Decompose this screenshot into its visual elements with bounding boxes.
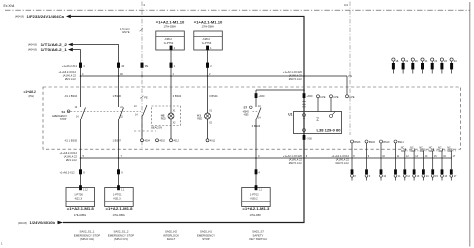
PE stub from equipotential line	[346, 76, 348, 95]
svg-text:PE: PE	[144, 95, 148, 99]
junction dots	[80, 75, 82, 77]
svg-text:0-PE: 0-PE	[320, 97, 326, 99]
svg-text:=1+A2.1-M1.10: =1+A2.1-M1.10	[156, 20, 185, 24]
svg-text:-X00: -X00	[306, 136, 312, 140]
fuse marks on U1 feed	[302, 101, 306, 103]
pin X12:40	[117, 63, 120, 68]
wire S1:22 down	[118, 119, 120, 188]
svg-text:1.12: 1.12	[83, 188, 88, 191]
wire T1 to contact S1:21 (x118.5)	[73, 45, 119, 108]
socket BS04 column 9	[365, 140, 368, 143]
svg-text:(A1/KL4.22: (A1/KL4.22	[63, 74, 77, 78]
wire H1:X2 down	[207, 119, 209, 139]
pin X12:9	[117, 169, 120, 174]
svg-text:PE: PE	[145, 64, 149, 68]
page right border	[469, 2, 471, 247]
svg-text:0 BS02: 0 BS02	[173, 94, 182, 98]
svg-text:1-PT00: 1-PT00	[74, 193, 83, 197]
pin -X00 below U1	[303, 135, 306, 140]
pin 1	[206, 46, 209, 51]
svg-text:NC: NC	[410, 147, 414, 150]
wire T0 to contact S1:13 (x80.5)	[73, 50, 81, 107]
svg-text:BS06: BS06	[354, 141, 361, 144]
wire S2:14 down	[255, 119, 257, 188]
socket BS02	[170, 139, 173, 142]
svg-text:Ø22.5 mm²: Ø22.5 mm²	[289, 77, 302, 81]
svg-text:BS11: BS11	[398, 141, 404, 144]
wire lamp H1 feed	[207, 50, 209, 113]
svg-text:=1+A2.1-M1.8: =1+A2.1-M1.8	[106, 207, 133, 211]
svg-text:(404.8): (404.8)	[18, 221, 27, 225]
svg-text:RED: RED	[197, 119, 202, 121]
svg-text:+1+A6.2-CC12: +1+A6.2-CC12	[59, 151, 77, 155]
plug box =1+A2.1-M1.3	[242, 188, 271, 207]
svg-text:S7: S7	[244, 106, 248, 110]
svg-text:RED: RED	[161, 119, 166, 121]
svg-text:17IH-DBH: 17IH-DBH	[202, 24, 214, 28]
svg-text:1-PT01: 1-PT01	[113, 193, 122, 197]
arrow 24V0 target	[58, 221, 64, 225]
arrow T0	[68, 48, 73, 52]
PE pins above U1	[317, 95, 320, 98]
svg-text:(A1/KL4.22: (A1/KL4.22	[64, 154, 78, 158]
pin 1	[170, 46, 173, 51]
wire PE equipotential line	[81, 75, 348, 77]
spare terminal 18	[392, 58, 395, 61]
svg-text:STOP: STOP	[202, 237, 210, 241]
svg-text:1,5 mm²: 1,5 mm²	[120, 27, 130, 31]
svg-text:U1: U1	[288, 112, 292, 116]
mechanical link dashed S1	[71, 111, 142, 113]
svg-text:(PH): (PH)	[29, 94, 35, 98]
svg-text:17IH-DBH: 17IH-DBH	[164, 24, 176, 28]
svg-text:=1+A2.1-M1.10: =1+A2.1-M1.10	[194, 20, 223, 24]
pin +X00 (S2 branch)	[255, 93, 258, 98]
pin X12:4	[255, 169, 258, 174]
socket BS11 column 11	[394, 140, 397, 143]
spare terminal 24	[450, 58, 453, 61]
svg-text:1/F233/24V1/404Ca: 1/F233/24V1/404Ca	[27, 15, 65, 19]
svg-text:1/T0/A6.2_1: 1/T0/A6.2_1	[41, 48, 68, 52]
svg-text:-N21.3: -N21.3	[74, 196, 82, 200]
plug box =1+A2.1-M1.8 (left)	[66, 188, 95, 207]
svg-text:H2: H2	[161, 113, 165, 117]
spare terminal 23	[440, 58, 443, 61]
svg-text:(A1/KL4.22: (A1/KL4.22	[336, 157, 350, 161]
cable marker dash-dot vertical C4 (x350)	[349, 2, 351, 136]
wire 24V1 bus top, right drop and 24V0 bottom bus	[63, 16, 304, 222]
svg-text:1 BS07: 1 BS07	[113, 138, 122, 142]
svg-text:4002: 4002	[159, 140, 165, 143]
svg-text:+X00: +X00	[306, 94, 313, 98]
svg-text:0-PE: 0-PE	[333, 97, 339, 99]
svg-text:1/T1/A6.2_2: 1/T1/A6.2_2	[41, 43, 68, 47]
svg-text:(SPLO CV): (SPLO CV)	[114, 237, 128, 241]
svg-text:NC: NC	[438, 147, 442, 150]
svg-text:-X1 1 BS04: -X1 1 BS04	[64, 94, 78, 98]
socket BS01	[206, 139, 209, 142]
svg-text:STOP: STOP	[60, 119, 67, 121]
plug box =1+A2.1-M1.8 (mid)	[105, 188, 134, 207]
socket 4004	[141, 139, 144, 142]
wire label PE tick	[140, 96, 144, 99]
svg-text:Ex.Xh4: Ex.Xh4	[4, 4, 15, 8]
svg-text:+1+A2.1-CC120: +1+A2.1-CC120	[283, 154, 303, 158]
svg-text:-N30.2: -N30.2	[250, 196, 258, 200]
spare terminal 19	[402, 58, 405, 61]
enclosure dashed box =1+A6.2	[43, 87, 461, 149]
socket 4002	[156, 139, 159, 142]
pin X12:PE	[141, 63, 144, 68]
svg-text:(404.8): (404.8)	[28, 43, 37, 47]
svg-text:GN2.5 mm²: GN2.5 mm²	[335, 161, 349, 165]
svg-text:-KB45: -KB45	[242, 111, 249, 113]
wire PE contact down	[141, 116, 143, 139]
wire H2:X2 down	[170, 119, 172, 139]
spare terminal 22	[431, 58, 434, 61]
svg-text:+1+A6.2-X12: +1+A6.2-X12	[60, 171, 76, 175]
svg-text:4004: 4004	[144, 140, 150, 143]
svg-text:-N31.3: -N31.3	[113, 196, 121, 200]
wire return line 0V	[81, 157, 453, 159]
svg-text:(A1/KL4.22: (A1/KL4.22	[289, 74, 303, 78]
svg-text:(SPLO CH): (SPLO CH)	[80, 237, 94, 241]
svg-text:(A1/KL4.22: (A1/KL4.22	[289, 157, 303, 161]
svg-text:-X1 1 BS05: -X1 1 BS05	[64, 138, 78, 142]
cable marker dash-dot vertical W4 (x142)	[141, 2, 143, 149]
svg-text:+1+A6.2-X12: +1+A6.2-X12	[62, 64, 78, 68]
svg-text:+1+A2.1-CC120: +1+A2.1-CC120	[283, 70, 303, 74]
arrow 24V1 source	[66, 15, 71, 19]
svg-text:+1+A2.1-CC12: +1+A2.1-CC12	[331, 154, 349, 158]
socket BS06 column 8	[351, 140, 354, 143]
spare terminal 21	[421, 58, 424, 61]
svg-text:-X28.2: -X28.2	[202, 37, 210, 41]
svg-text:G-PT53: G-PT53	[202, 41, 212, 45]
svg-text:H1: H1	[197, 113, 201, 117]
pin +X00 (U1 feed)	[303, 93, 306, 98]
svg-text:-X28.2: -X28.2	[164, 37, 172, 41]
cable duct dash-dot line Ex.Xh4	[5, 9, 470, 11]
svg-text:Ø22.5 mm²: Ø22.5 mm²	[289, 161, 302, 165]
svg-text:1-PT02: 1-PT02	[250, 193, 259, 197]
socket BS10 column 10	[380, 140, 383, 143]
svg-text:C4: C4	[344, 3, 348, 7]
svg-text:NC: NC	[419, 147, 423, 150]
pin X12:8	[79, 169, 82, 174]
svg-text:BEACON: BEACON	[151, 126, 162, 130]
svg-text:0 BS03: 0 BS03	[252, 124, 261, 128]
NC contact link dashed	[401, 150, 456, 152]
svg-text:S1: S1	[62, 110, 66, 114]
svg-text:(404.8): (404.8)	[28, 48, 37, 52]
svg-text:BS04: BS04	[369, 141, 376, 144]
svg-text:17IH-DBG: 17IH-DBG	[113, 213, 125, 217]
svg-text:L38 129-0 60: L38 129-0 60	[317, 129, 341, 133]
svg-text:Ø21 mm²: Ø21 mm²	[65, 77, 76, 81]
svg-text:FAULT: FAULT	[167, 237, 176, 241]
svg-text:BS10: BS10	[383, 141, 390, 144]
svg-text:4012: 4012	[173, 140, 179, 143]
pin X12:2	[206, 63, 209, 68]
spare terminal 20	[411, 58, 414, 61]
svg-text:=1+A6.2: =1+A6.2	[24, 90, 36, 94]
svg-text:1 BS06: 1 BS06	[113, 94, 122, 98]
svg-text:NC: NC	[429, 147, 433, 150]
svg-text:1/24V0/4010b: 1/24V0/4010b	[30, 221, 56, 225]
mech dashes below	[134, 130, 156, 132]
svg-text:0 BS01: 0 BS01	[209, 94, 218, 98]
beacon dashed box	[152, 106, 181, 126]
svg-text:=1+A2.1-M1.8: =1+A2.1-M1.8	[67, 207, 94, 211]
svg-text:G-PT52: G-PT52	[164, 41, 174, 45]
svg-text:PE: PE	[349, 74, 353, 78]
svg-text:+X00: +X00	[258, 94, 265, 98]
svg-text:17IH-DBG: 17IH-DBG	[74, 213, 86, 217]
svg-text:0-PE: 0-PE	[349, 97, 355, 99]
pin X12:4	[79, 63, 82, 68]
wire branch to S2	[256, 89, 304, 91]
wire S1:14 down	[80, 119, 82, 188]
wire S2 branch upper	[255, 90, 257, 107]
svg-text:Ø21 mm²: Ø21 mm²	[66, 158, 77, 162]
svg-text:-KB5: -KB5	[243, 114, 249, 116]
svg-text:17IH-DBI: 17IH-DBI	[250, 213, 261, 217]
svg-text:+1+A6.2-CC12: +1+A6.2-CC12	[58, 70, 76, 74]
svg-text:4011: 4011	[210, 140, 216, 143]
arrow T1	[68, 43, 73, 47]
pin X12:1	[170, 63, 173, 68]
svg-text:GNYE: GNYE	[122, 30, 130, 34]
svg-text:NC: NC	[401, 147, 405, 150]
svg-text:EMERGENCY: EMERGENCY	[52, 116, 67, 118]
svg-text:KEY SWITCH: KEY SWITCH	[249, 237, 266, 241]
svg-text:=1+A2.1-M1.3: =1+A2.1-M1.3	[242, 207, 269, 211]
svg-text:NC: NC	[447, 147, 451, 150]
wire lamp H2 feed	[170, 50, 172, 113]
svg-text:(404.8): (404.8)	[15, 15, 24, 19]
